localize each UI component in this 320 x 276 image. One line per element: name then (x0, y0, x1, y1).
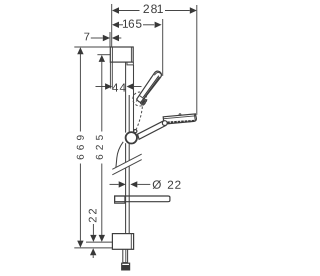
top bracket inner left line (111, 47, 113, 62)
bottom bracket (112, 234, 133, 250)
dimension 44 text (112, 83, 118, 91)
diameter 22 dimension line left (110, 183, 119, 185)
hose outlet tube (122, 249, 124, 262)
dimension 281 text (143, 5, 149, 13)
dimension 44 line right (134, 86, 142, 88)
dimension 165 left arrow (112, 22, 119, 28)
lower hand shower handle (138, 121, 166, 140)
dashed swivel curve (136, 107, 142, 130)
shower hose (116, 142, 123, 168)
top bracket inner right line (130, 47, 132, 62)
dimension 7 left arrow (103, 35, 110, 41)
diameter 22 dimension line right (137, 183, 150, 185)
dimension 22 down arrow (90, 235, 96, 242)
dashed pivot circle (133, 92, 147, 106)
lower head inner top line (164, 116, 196, 119)
lower head spray nozzles (167, 121, 195, 123)
holder sleeve right edge (133, 65, 135, 132)
dimension 7 line left (91, 37, 103, 39)
wall bar right edge (128, 95, 130, 133)
diameter 22 right arrow (130, 181, 137, 187)
hand shower inlet nut (140, 98, 146, 105)
dimension 625 text (96, 155, 103, 160)
dimension 625 vertical line (101, 62, 103, 132)
extension line right of 281 (196, 5, 198, 115)
dimension 625 bottom arrow (99, 235, 105, 242)
dimension 281 right arrow (190, 7, 197, 13)
extension line top for 625 (97, 54, 110, 56)
dimension 22 lower stem (92, 255, 94, 258)
hand shower stored position (135, 70, 165, 106)
extension line right of 165 (162, 19, 164, 76)
dimension 625 top arrow (99, 55, 105, 62)
slider ball (126, 132, 137, 143)
dimension 165 text (123, 20, 128, 28)
extension line B bottom (74, 247, 112, 249)
dimension 44 left arrow (105, 83, 112, 89)
dimension 44 right arrow (127, 83, 134, 89)
hose nut (122, 263, 130, 270)
bottom bracket inner line (130, 234, 132, 250)
wall extension line (long, top) (111, 4, 113, 47)
hand shower head inner rim (154, 71, 161, 78)
wall extension line (short, for 7mm) (109, 32, 111, 47)
dimension 669 bottom arrow (77, 241, 83, 248)
dimension 7 text (84, 33, 89, 41)
dimension 7 right arrow (112, 35, 119, 41)
slider clamp knob (134, 130, 137, 133)
dimension 22 text (89, 217, 97, 222)
hand shower grip band (139, 95, 144, 99)
top bracket (110, 47, 133, 62)
dimension 165 right arrow (155, 22, 162, 28)
break mark line 1 (112, 154, 141, 169)
dimension 669 top arrow (77, 47, 83, 54)
dimension 22 up arrow below (90, 248, 96, 255)
dimension 165 line (119, 24, 123, 26)
extension line top for 669 (74, 46, 110, 48)
lower shower joint (162, 121, 167, 126)
top bracket lip (127, 62, 133, 65)
dimension 7 line right (119, 37, 122, 39)
wall bar left edge (125, 62, 127, 133)
hand shower face line 1 (143, 76, 159, 98)
dimension 281 line (119, 10, 140, 12)
dimension 22 line (92, 224, 94, 235)
break mark line 2 (112, 160, 141, 175)
dashed alternate outline (136, 76, 152, 102)
lower hand shower head (163, 114, 196, 124)
lower head right rim (194, 114, 195, 121)
wall extension lines below bracket (109, 62, 111, 88)
dimension 44 line left (96, 86, 106, 88)
soap dish tray (115, 196, 170, 202)
dimension 281 left arrow (112, 7, 119, 13)
hand shower face line 2 (144, 77, 159, 98)
extension line A bottom (86, 241, 112, 243)
diameter 22 text (153, 180, 161, 189)
dimension 669 vertical line (79, 54, 81, 132)
dimension 669 text (77, 155, 84, 160)
soap dish clamp (115, 196, 125, 203)
diameter 22 left arrow (119, 181, 126, 187)
lower head top button (179, 114, 181, 116)
